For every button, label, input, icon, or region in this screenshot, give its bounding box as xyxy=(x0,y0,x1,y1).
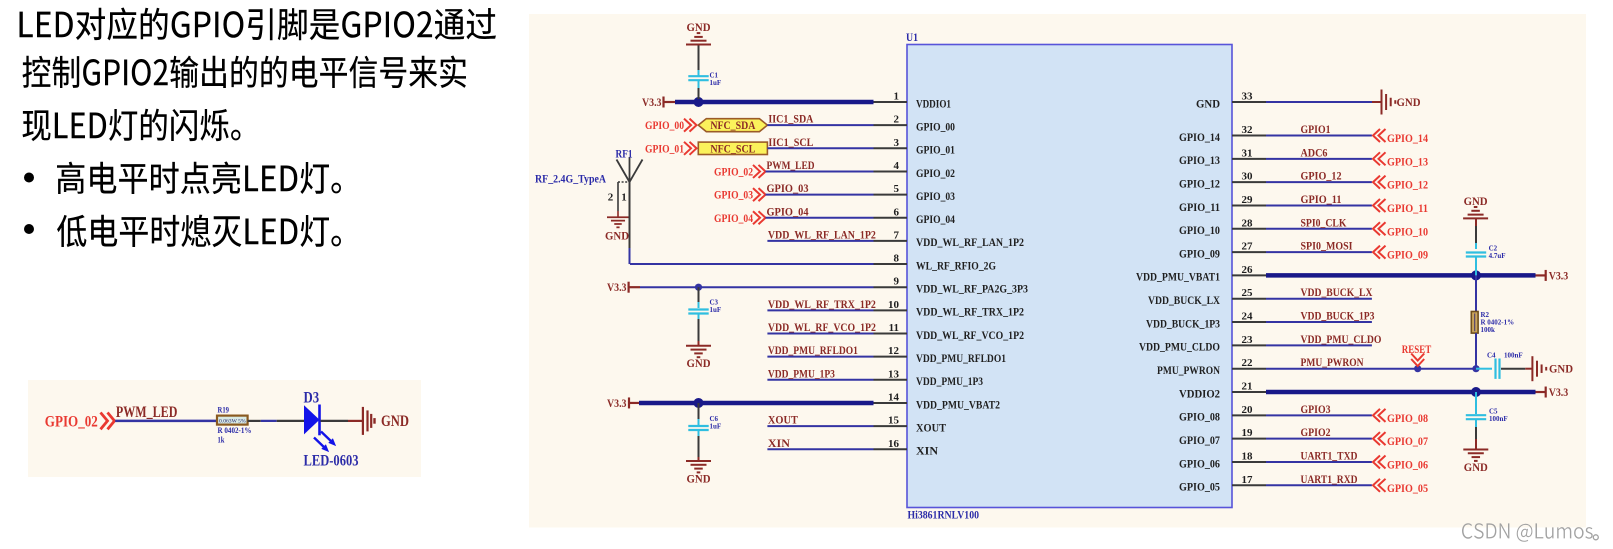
svg-text:10: 10 xyxy=(888,299,900,311)
svg-text:VDD_WL_RF_TRX_1P2: VDD_WL_RF_TRX_1P2 xyxy=(916,305,1024,319)
svg-text:GND: GND xyxy=(687,22,711,34)
svg-text:V3.3: V3.3 xyxy=(1549,268,1569,282)
svg-text:VDD_PMU_VBAT1: VDD_PMU_VBAT1 xyxy=(1136,270,1220,284)
svg-text:8: 8 xyxy=(894,253,900,265)
svg-text:GND: GND xyxy=(1397,97,1421,109)
svg-text:GPIO_12: GPIO_12 xyxy=(1179,176,1220,190)
svg-text:ADC6: ADC6 xyxy=(1301,147,1328,159)
svg-text:29: 29 xyxy=(1242,194,1254,206)
svg-text:VDD_WL_RF_LAN_1P2: VDD_WL_RF_LAN_1P2 xyxy=(916,235,1024,249)
svg-text:GND: GND xyxy=(605,231,629,243)
svg-text:Hi3861RNLV100: Hi3861RNLV100 xyxy=(908,510,980,522)
svg-text:VDD_PMU_1P3: VDD_PMU_1P3 xyxy=(916,374,983,388)
svg-text:NFC_SCL: NFC_SCL xyxy=(710,143,755,155)
svg-text:U1: U1 xyxy=(906,30,918,44)
svg-text:24: 24 xyxy=(1242,311,1254,323)
svg-text:GPIO_11: GPIO_11 xyxy=(1179,200,1220,214)
svg-text:VDD_WL_RF_TRX_1P2: VDD_WL_RF_TRX_1P2 xyxy=(768,299,876,311)
svg-text:16: 16 xyxy=(888,438,900,450)
svg-text:33: 33 xyxy=(1242,91,1254,103)
svg-text:VDD_PMU_RFLDO1: VDD_PMU_RFLDO1 xyxy=(768,345,858,357)
svg-text:VDD_BUCK_1P3: VDD_BUCK_1P3 xyxy=(1301,311,1375,323)
svg-text:LED-0603: LED-0603 xyxy=(304,453,359,470)
svg-text:WL_RF_RFIO_2G: WL_RF_RFIO_2G xyxy=(916,258,996,272)
svg-text:XIN: XIN xyxy=(768,438,791,450)
svg-text:VDD_WL_RF_LAN_1P2: VDD_WL_RF_LAN_1P2 xyxy=(768,229,876,241)
svg-text:RF_2.4G_TypeA: RF_2.4G_TypeA xyxy=(535,174,607,186)
svg-text:GPIO_00: GPIO_00 xyxy=(916,119,955,133)
svg-text:GND: GND xyxy=(687,358,711,370)
svg-text:GPIO_06: GPIO_06 xyxy=(1387,459,1428,471)
svg-text:RESET: RESET xyxy=(1402,344,1432,356)
svg-text:4: 4 xyxy=(894,160,900,172)
svg-text:VDD_PMU_VBAT2: VDD_PMU_VBAT2 xyxy=(916,397,1000,411)
svg-text:GPIO_05: GPIO_05 xyxy=(1387,483,1428,495)
svg-text:21: 21 xyxy=(1242,381,1253,393)
svg-text:XOUT: XOUT xyxy=(916,420,946,434)
svg-text:GND: GND xyxy=(1464,462,1488,474)
svg-text:GPIO_13: GPIO_13 xyxy=(1179,153,1220,167)
svg-text:GPIO_09: GPIO_09 xyxy=(1179,246,1220,260)
svg-text:23: 23 xyxy=(1242,334,1254,346)
svg-text:GPIO_09: GPIO_09 xyxy=(1387,250,1428,262)
svg-text:GPIO_04: GPIO_04 xyxy=(916,212,955,226)
svg-text:7: 7 xyxy=(894,229,900,241)
svg-text:GPIO_01: GPIO_01 xyxy=(916,143,955,157)
svg-text:GPIO_10: GPIO_10 xyxy=(1179,223,1220,237)
svg-text:15: 15 xyxy=(888,415,900,427)
svg-text:GPIO3: GPIO3 xyxy=(1301,404,1331,416)
svg-text:GPIO_11: GPIO_11 xyxy=(1301,194,1342,206)
svg-text:GPIO2: GPIO2 xyxy=(1301,427,1331,439)
svg-text:GPIO_02: GPIO_02 xyxy=(714,166,753,178)
svg-text:GPIO_07: GPIO_07 xyxy=(1387,436,1428,448)
svg-text:100nF: 100nF xyxy=(1504,352,1523,360)
svg-text:5: 5 xyxy=(894,183,900,195)
svg-text:GPIO_02: GPIO_02 xyxy=(45,413,98,430)
svg-text:9: 9 xyxy=(894,276,900,288)
svg-text:11: 11 xyxy=(889,322,899,334)
svg-text:SPI0_MOSI: SPI0_MOSI xyxy=(1301,241,1353,253)
svg-text:GPIO_06: GPIO_06 xyxy=(1179,456,1220,470)
svg-text:GPIO_14: GPIO_14 xyxy=(1387,133,1428,145)
svg-text:6: 6 xyxy=(894,206,900,218)
svg-text:12: 12 xyxy=(888,345,900,357)
svg-text:100nF: 100nF xyxy=(1489,415,1508,423)
svg-text:VDD_BUCK_1P3: VDD_BUCK_1P3 xyxy=(1146,316,1220,330)
svg-text:VDD_PMU_CLDO: VDD_PMU_CLDO xyxy=(1301,334,1382,346)
svg-text:SPI0_CLK: SPI0_CLK xyxy=(1301,217,1347,229)
svg-text:GPIO_04: GPIO_04 xyxy=(767,206,809,218)
svg-text:VDDIO1: VDDIO1 xyxy=(916,96,951,110)
svg-text:VDD_PMU_1P3: VDD_PMU_1P3 xyxy=(768,368,835,380)
svg-text:1k: 1k xyxy=(218,434,225,444)
svg-text:4.7uF: 4.7uF xyxy=(1489,252,1506,260)
svg-text:VDD_BUCK_LX: VDD_BUCK_LX xyxy=(1301,287,1374,299)
svg-text:IIC1_SCL: IIC1_SCL xyxy=(768,137,813,149)
svg-text:V3.3: V3.3 xyxy=(607,280,627,294)
svg-text:GPIO_03: GPIO_03 xyxy=(767,183,809,195)
svg-text:GND: GND xyxy=(381,413,409,430)
svg-text:32: 32 xyxy=(1242,124,1254,136)
svg-text:GPIO_14: GPIO_14 xyxy=(1179,130,1220,144)
svg-text:PMU_PWRON: PMU_PWRON xyxy=(1157,363,1220,377)
svg-text:31: 31 xyxy=(1242,147,1253,159)
svg-text:GPIO_08: GPIO_08 xyxy=(1387,413,1428,425)
svg-text:GPIO_10: GPIO_10 xyxy=(1387,226,1428,238)
svg-text:20: 20 xyxy=(1242,404,1254,416)
svg-text:25: 25 xyxy=(1242,287,1254,299)
svg-text:GND: GND xyxy=(1196,96,1220,110)
svg-text:D3: D3 xyxy=(304,390,320,407)
svg-text:GND: GND xyxy=(687,474,711,486)
svg-text:17: 17 xyxy=(1242,474,1254,486)
svg-text:22: 22 xyxy=(1242,357,1254,369)
svg-text:30: 30 xyxy=(1242,171,1254,183)
svg-text:GPIO_04: GPIO_04 xyxy=(714,213,753,225)
svg-text:PWM_LED: PWM_LED xyxy=(767,160,815,172)
svg-text:1: 1 xyxy=(621,192,627,204)
svg-text:VDD_WL_RF_VCO_1P2: VDD_WL_RF_VCO_1P2 xyxy=(916,328,1024,342)
svg-text:3: 3 xyxy=(894,137,900,149)
svg-text:GPIO_12: GPIO_12 xyxy=(1387,180,1428,192)
svg-text:13: 13 xyxy=(888,368,900,380)
svg-text:UART1_TXD: UART1_TXD xyxy=(1301,450,1358,462)
svg-text:GPIO_03: GPIO_03 xyxy=(916,189,955,203)
svg-text:XIN: XIN xyxy=(916,444,938,458)
svg-text:V3.3: V3.3 xyxy=(607,396,627,410)
svg-text:GND: GND xyxy=(1464,196,1488,208)
svg-text:1uF: 1uF xyxy=(710,306,722,314)
svg-text:0.063W 5%: 0.063W 5% xyxy=(219,419,246,425)
svg-text:2: 2 xyxy=(608,192,614,204)
svg-text:R19: R19 xyxy=(218,405,230,415)
svg-text:19: 19 xyxy=(1242,427,1254,439)
svg-text:GPIO_08: GPIO_08 xyxy=(1179,410,1220,424)
svg-text:GPIO_13: GPIO_13 xyxy=(1387,156,1428,168)
svg-text:PWM_LED: PWM_LED xyxy=(116,404,177,421)
svg-text:VDD_BUCK_LX: VDD_BUCK_LX xyxy=(1148,293,1220,307)
svg-text:V3.3: V3.3 xyxy=(642,95,662,109)
svg-text:PMU_PWRON: PMU_PWRON xyxy=(1301,357,1365,369)
svg-text:VDDIO2: VDDIO2 xyxy=(1179,386,1220,400)
svg-text:18: 18 xyxy=(1242,450,1254,462)
svg-text:VDD_PMU_RFLDO1: VDD_PMU_RFLDO1 xyxy=(916,351,1006,365)
svg-text:GPIO1: GPIO1 xyxy=(1301,124,1331,136)
svg-text:GPIO_00: GPIO_00 xyxy=(645,120,684,132)
svg-text:GPIO_11: GPIO_11 xyxy=(1387,203,1428,215)
svg-text:100k: 100k xyxy=(1481,326,1496,334)
svg-text:C4: C4 xyxy=(1487,352,1496,360)
svg-text:GPIO_05: GPIO_05 xyxy=(1179,480,1220,494)
svg-text:UART1_RXD: UART1_RXD xyxy=(1301,474,1358,486)
svg-text:GPIO_01: GPIO_01 xyxy=(645,143,684,155)
svg-text:GPIO_02: GPIO_02 xyxy=(916,166,955,180)
svg-text:1uF: 1uF xyxy=(710,423,722,431)
svg-text:1: 1 xyxy=(894,91,900,103)
svg-text:27: 27 xyxy=(1242,241,1254,253)
svg-text:VDD_WL_RF_PA2G_3P3: VDD_WL_RF_PA2G_3P3 xyxy=(916,282,1028,296)
svg-text:GPIO_07: GPIO_07 xyxy=(1179,433,1220,447)
svg-text:GPIO_03: GPIO_03 xyxy=(714,190,753,202)
svg-text:14: 14 xyxy=(888,391,900,403)
svg-text:28: 28 xyxy=(1242,217,1254,229)
svg-text:2: 2 xyxy=(894,114,900,126)
svg-text:VDD_WL_RF_VCO_1P2: VDD_WL_RF_VCO_1P2 xyxy=(768,322,876,334)
svg-text:GND: GND xyxy=(1549,364,1573,376)
svg-text:26: 26 xyxy=(1242,264,1254,276)
svg-text:XOUT: XOUT xyxy=(768,415,798,427)
svg-text:GPIO_12: GPIO_12 xyxy=(1301,171,1342,183)
svg-text:VDD_PMU_CLDO: VDD_PMU_CLDO xyxy=(1139,340,1220,354)
svg-text:1uF: 1uF xyxy=(710,79,722,87)
svg-text:NFC_SDA: NFC_SDA xyxy=(710,120,756,132)
svg-text:V3.3: V3.3 xyxy=(1549,385,1569,399)
svg-text:IIC1_SDA: IIC1_SDA xyxy=(768,114,814,126)
